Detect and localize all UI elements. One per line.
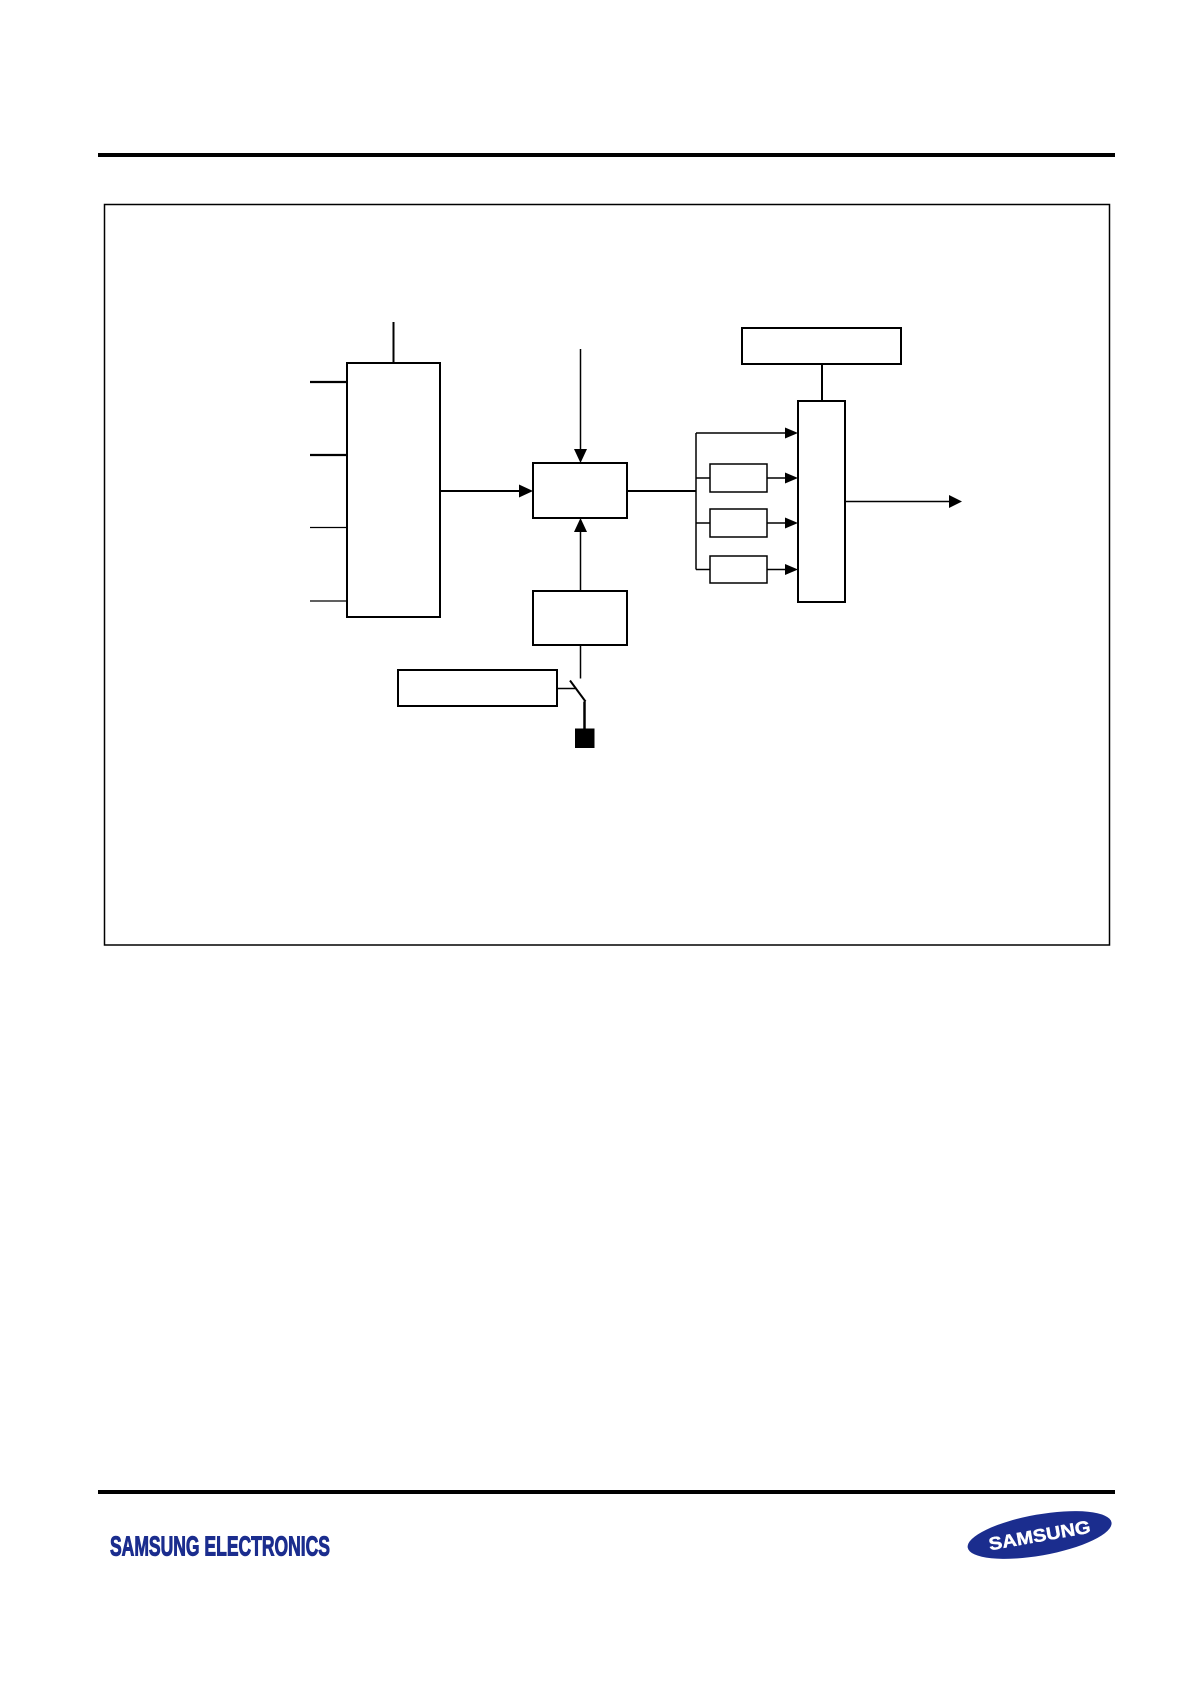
bottom rule (98, 1490, 1115, 1494)
block D1 (divider 1) (710, 464, 767, 492)
wire: U3 to U2 arrow (574, 518, 587, 591)
block U1 (tall left block) (347, 363, 440, 617)
wire: U3 bottom to switch (580, 645, 582, 679)
figure frame (105, 205, 1110, 946)
block D2 (divider 2) (710, 509, 767, 537)
wire: label box stub to switch (557, 688, 575, 690)
svg-text:SAMSUNG ELECTRONICS: SAMSUNG ELECTRONICS (110, 1531, 330, 1562)
wire: U1 top stub (393, 322, 395, 363)
wire: bus stub to D2 (696, 522, 710, 524)
wire: U2 output to bus (627, 490, 696, 492)
wire: switch to pad (583, 702, 586, 730)
block U2 (mux box) (533, 463, 627, 518)
switch SW1 blade (570, 681, 586, 702)
wire: U1 input stub 1 (310, 381, 347, 383)
block: label box L1 (398, 670, 557, 706)
wire: D1 to U7 arrow (767, 473, 798, 484)
pad (black square terminal) (575, 729, 595, 749)
wire: U1 input stub 4 (310, 600, 347, 602)
block D3 (divider 3) (710, 556, 767, 583)
wire: R1 to U7 (821, 364, 823, 401)
wire: D2 to U7 arrow (767, 518, 798, 529)
wire: D3 to U7 arrow (767, 564, 798, 575)
wire: U1 input stub 3 (310, 527, 347, 529)
wire: U1 input stub 2 (310, 454, 347, 456)
wire: U1 output to U2 with arrowhead (440, 485, 533, 498)
block U3 (oscillator box) (533, 591, 627, 645)
Samsung logo ellipse (964, 1502, 1115, 1568)
wire: top input arrow into U2 (574, 349, 587, 463)
wire: bus stub to D3 (696, 569, 710, 571)
wire: U7 output arrow (845, 495, 962, 508)
wire: vertical bus (695, 433, 697, 570)
block: register box R1 (742, 328, 901, 364)
wire: bus stub to D1 (696, 477, 710, 479)
top rule (98, 153, 1115, 157)
wire: bus top branch arrow into U7 (696, 428, 798, 439)
block U7 (selector tall block) (798, 401, 845, 602)
